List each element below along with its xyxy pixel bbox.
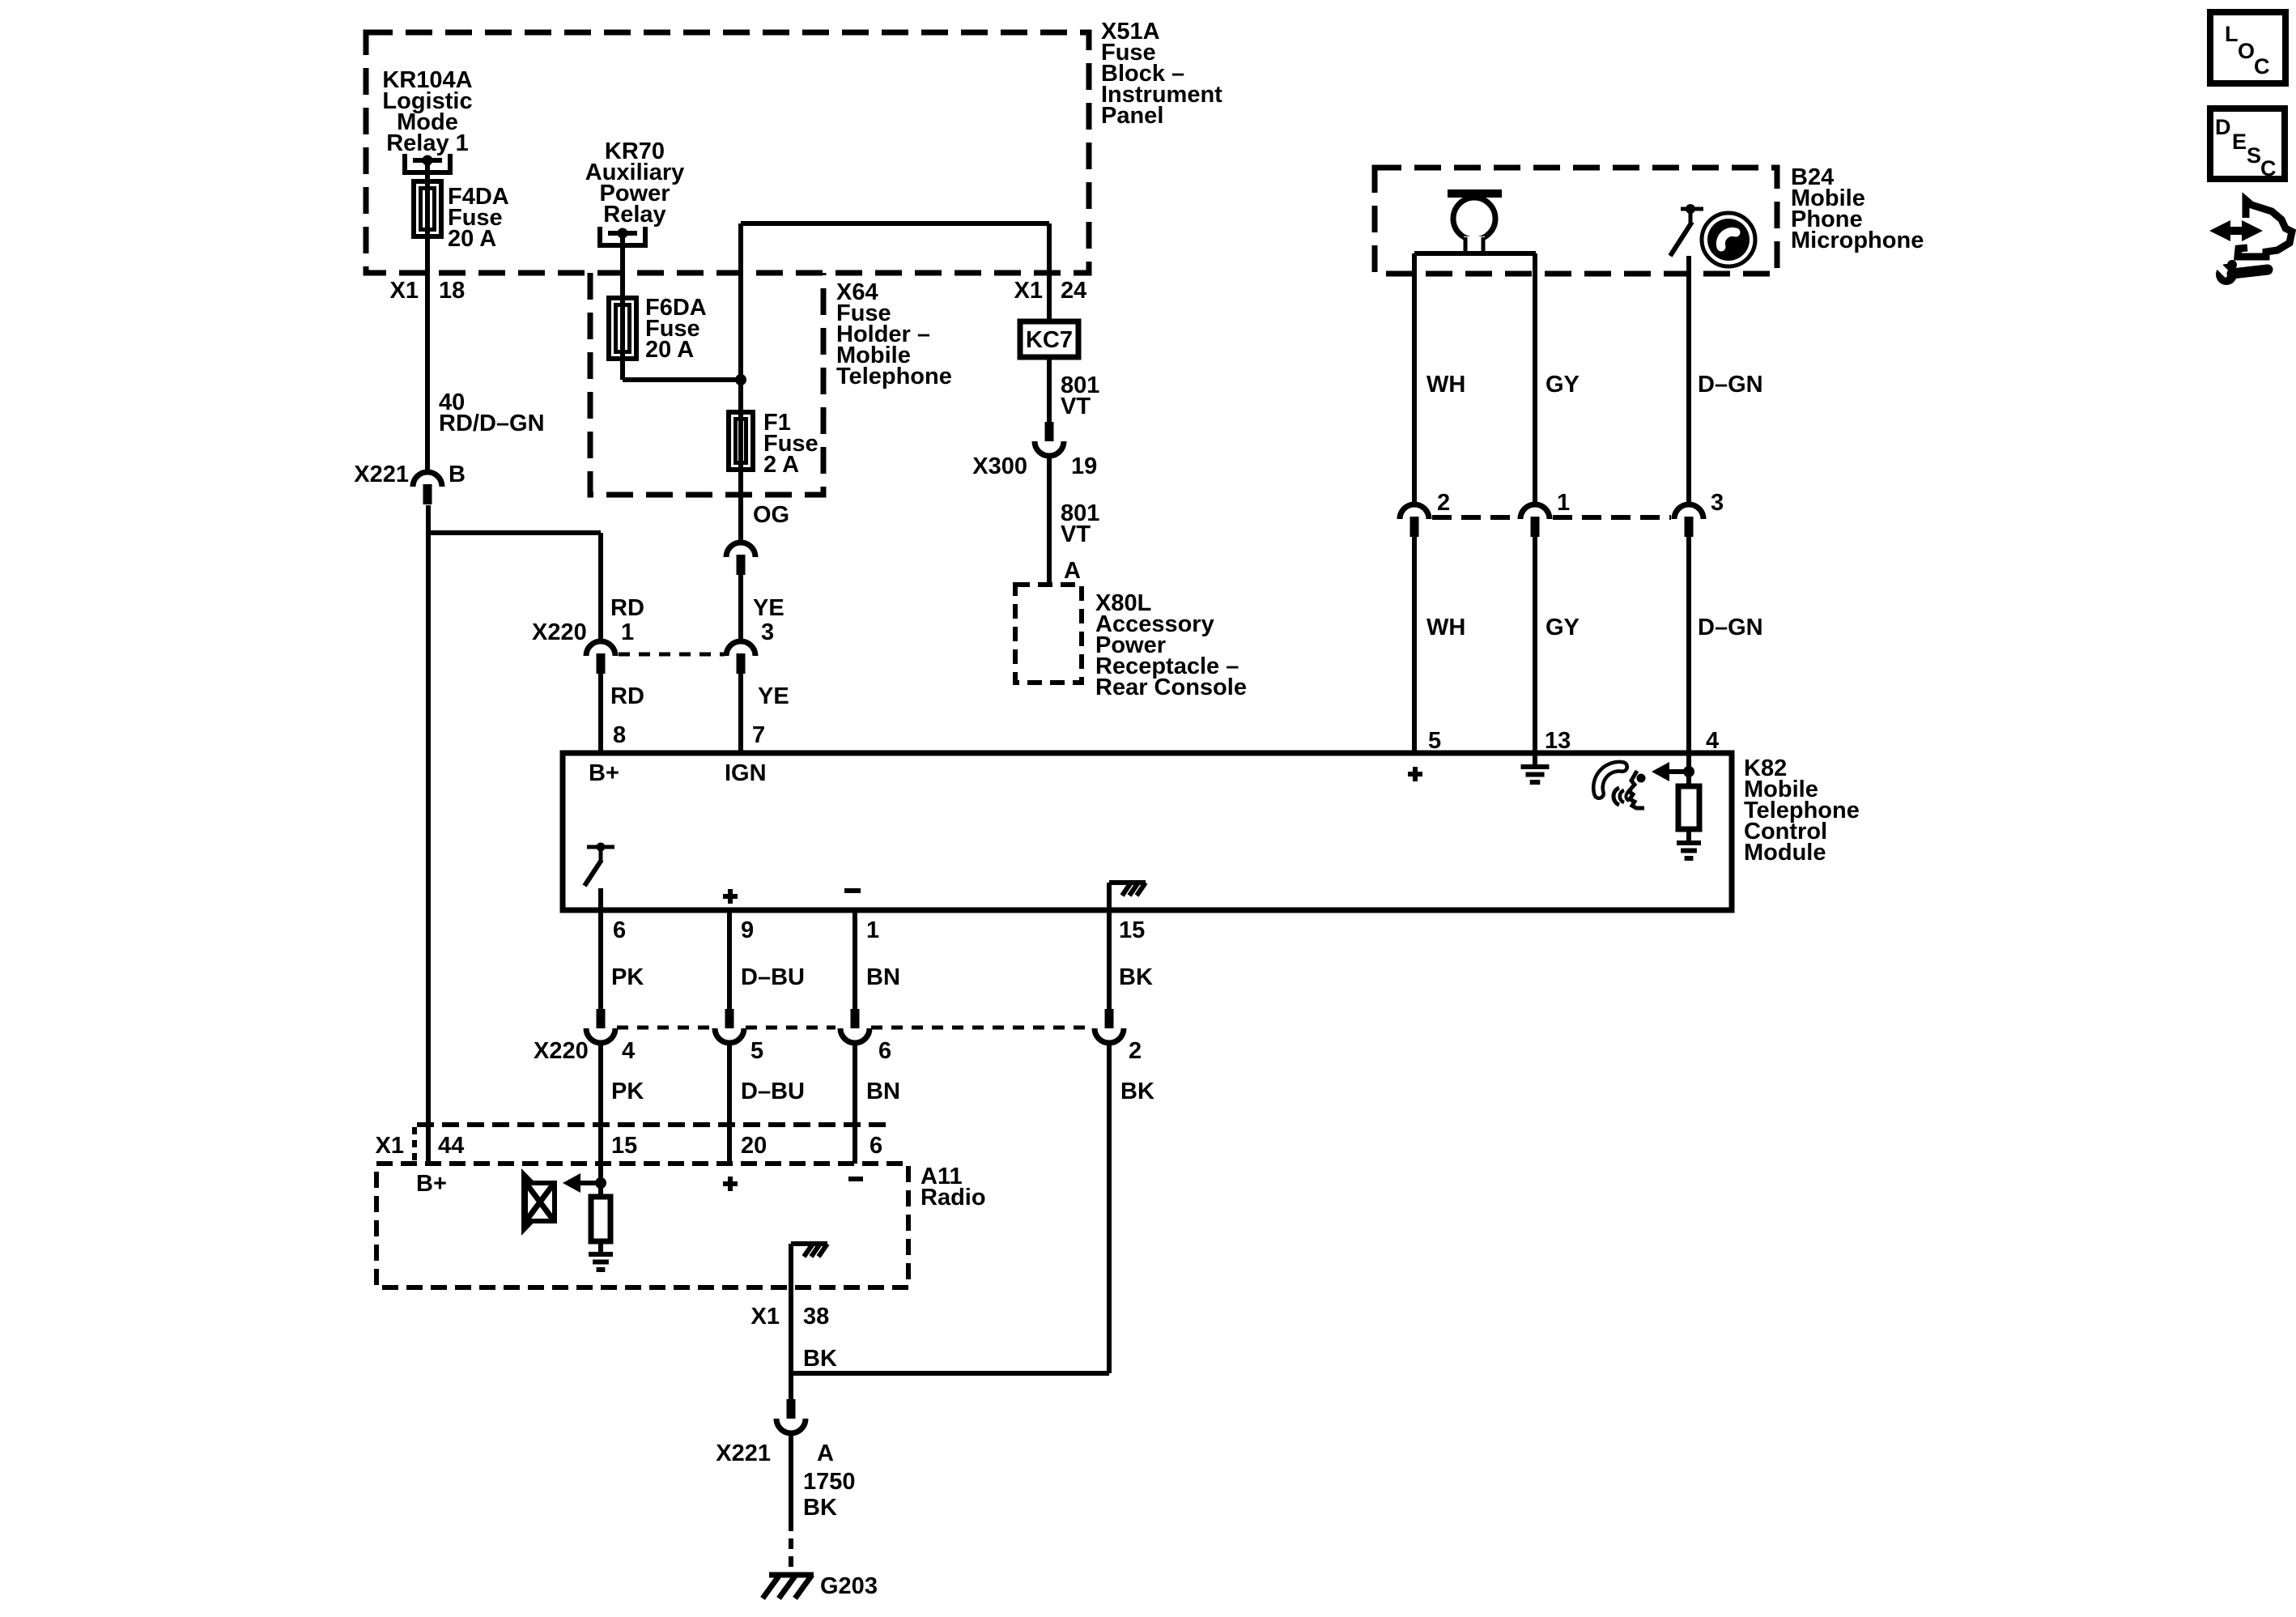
svg-text:WH: WH xyxy=(1426,372,1465,398)
wire PK X220-4 into radio xyxy=(598,1042,603,1183)
wire label 801 VT xyxy=(1061,372,1099,419)
connector X220 pin 1 xyxy=(586,641,615,674)
minus symbol radio pin 6 xyxy=(848,1177,863,1181)
svg-text:BN: BN xyxy=(866,1079,900,1104)
label A11 Radio xyxy=(921,1164,986,1211)
svg-text:24: 24 xyxy=(1061,278,1086,304)
microphone B24 dashed box xyxy=(1375,168,1777,274)
svg-text:BK: BK xyxy=(803,1346,837,1372)
svg-text:4: 4 xyxy=(1706,728,1719,754)
svg-text:2 A: 2 A xyxy=(763,452,799,478)
label X1 44 radio xyxy=(376,1133,465,1159)
label F4DA Fuse 20 A xyxy=(448,184,509,252)
box KC7 xyxy=(1020,321,1078,357)
dashed link B24 row a xyxy=(1432,515,1517,520)
svg-text:15: 15 xyxy=(1119,917,1145,943)
wire WH lower xyxy=(1412,536,1417,753)
label F1 Fuse 2 A xyxy=(763,410,818,478)
wire F6DA to junction xyxy=(623,359,741,380)
wire GY lower xyxy=(1533,536,1537,753)
dashed link X220 row1 xyxy=(619,653,725,657)
svg-text:2: 2 xyxy=(1437,490,1450,516)
svg-text:BK: BK xyxy=(1119,964,1153,990)
svg-text:8: 8 xyxy=(613,722,626,748)
svg-text:O: O xyxy=(2238,39,2255,63)
label X51A Fuse Block - Instrument Panel xyxy=(1101,19,1222,129)
svg-text:19: 19 xyxy=(1071,453,1097,479)
svg-text:1: 1 xyxy=(621,619,634,645)
svg-text:PK: PK xyxy=(611,964,644,990)
svg-text:OG: OG xyxy=(753,502,789,528)
ground symbol pin 13 xyxy=(1521,753,1550,782)
svg-text:D–BU: D–BU xyxy=(741,964,805,990)
receptacle X80L dashed box xyxy=(1015,585,1082,683)
wire F1 to OG connector xyxy=(738,470,743,544)
inline connector OG xyxy=(726,543,755,575)
minus symbol pin 1 xyxy=(844,888,861,893)
wire RD X220-1 to K82 pin 8 xyxy=(598,673,603,753)
wire D-BU X220-5 to radio xyxy=(727,1042,732,1164)
svg-text:S: S xyxy=(2247,143,2261,168)
wire KC7 to X300 xyxy=(1047,357,1052,423)
svg-text:B+: B+ xyxy=(589,760,619,786)
connector X220 pin 3 xyxy=(726,641,755,674)
pin label X1 18 xyxy=(390,278,466,304)
svg-text:1750: 1750 xyxy=(803,1469,856,1495)
fuse F4DA 20A xyxy=(414,181,441,236)
plus symbol radio pin 20 xyxy=(723,1181,738,1186)
svg-text:D: D xyxy=(2215,115,2231,139)
phone icon xyxy=(1702,213,1755,266)
wire YE to X220 pin 3 xyxy=(738,575,743,641)
svg-text:1: 1 xyxy=(1557,490,1570,516)
svg-text:KC7: KC7 xyxy=(1026,327,1073,353)
connector B24 pin 2 xyxy=(1400,504,1429,537)
wire junction to F1 xyxy=(738,380,743,414)
wire label 801 VT lower xyxy=(1061,500,1099,547)
svg-text:Radio: Radio xyxy=(921,1185,986,1211)
connector X221 pin B xyxy=(413,472,442,504)
mute speaker icon xyxy=(521,1168,555,1236)
label KR104A Logistic Mode Relay 1 xyxy=(382,67,472,156)
fuse holder X64 dashed box xyxy=(590,273,823,495)
wire KR104A to F4DA xyxy=(425,160,430,183)
svg-text:Rear Console: Rear Console xyxy=(1095,674,1247,700)
svg-text:BK: BK xyxy=(803,1495,837,1521)
svg-text:D–BU: D–BU xyxy=(741,1079,805,1104)
relay KR70 Auxiliary Power Relay xyxy=(600,227,645,245)
label KR70 Auxiliary Power Relay xyxy=(585,138,685,228)
wire KR70 to F6DA xyxy=(620,233,625,300)
svg-text:1: 1 xyxy=(866,917,879,943)
fuse block X51A dashed box xyxy=(366,32,1089,273)
svg-text:Relay: Relay xyxy=(603,202,665,228)
svg-text:X221: X221 xyxy=(716,1440,771,1466)
wire BK X220-2 down xyxy=(791,1042,1109,1373)
svg-text:D–GN: D–GN xyxy=(1698,372,1763,398)
label X80L Accessory Power Receptacle - Rear Console xyxy=(1095,590,1247,700)
ground G203 xyxy=(763,1575,814,1598)
svg-text:X1: X1 xyxy=(376,1133,404,1159)
svg-text:6: 6 xyxy=(613,917,626,943)
svg-text:C: C xyxy=(2260,156,2277,181)
svg-text:GY: GY xyxy=(1546,615,1580,640)
resistor in radio xyxy=(591,1183,610,1241)
wire junction up to KC7 feed xyxy=(741,223,1049,380)
svg-text:Module: Module xyxy=(1744,840,1826,866)
wire GY mic to K82 pin 13 xyxy=(1533,253,1537,504)
wire D-GN switch to K82 pin 4 xyxy=(1686,256,1691,504)
dashed link X220 row2 b xyxy=(746,1026,835,1030)
label F6DA Fuse 20 A xyxy=(645,295,707,363)
connector B24 pin 1 xyxy=(1520,504,1550,537)
svg-text:X1: X1 xyxy=(751,1304,780,1330)
svg-text:A: A xyxy=(1064,558,1081,584)
label X64 Fuse Holder - Mobile Telephone xyxy=(836,279,952,389)
svg-text:WH: WH xyxy=(1426,615,1465,640)
connector X220 pin 2 xyxy=(1095,1009,1124,1043)
radio A11 dashed box xyxy=(376,1164,908,1287)
wire X300 to X80L xyxy=(1047,455,1052,585)
svg-text:PK: PK xyxy=(611,1079,644,1104)
svg-text:6: 6 xyxy=(870,1133,882,1159)
wire RD down to X220 pin 1 xyxy=(598,533,603,641)
wire BN K82 pin1 to X220 pin 6 xyxy=(852,910,857,1009)
wire D-BU K82 pin9 to X220 pin 5 xyxy=(727,910,732,1009)
phone speech icon in K82 xyxy=(1598,767,1646,808)
wire BK K82 pin15 to X220 pin 2 xyxy=(1107,910,1112,1009)
plus symbol pin 9 xyxy=(723,894,738,899)
label 1750 BK xyxy=(803,1469,856,1521)
dashed link X220 row2 a xyxy=(617,1026,713,1030)
svg-text:6: 6 xyxy=(878,1038,891,1064)
label X1 38 xyxy=(751,1304,830,1330)
wire label 40 RD/D-GN xyxy=(439,389,545,436)
svg-text:5: 5 xyxy=(1428,728,1441,754)
fuse F6DA 20A xyxy=(609,298,636,359)
wire RD X221-B down to radio B+ xyxy=(426,505,431,1164)
label X221 B xyxy=(354,462,466,487)
svg-text:BK: BK xyxy=(1120,1079,1154,1104)
X1 separator dash xyxy=(412,1127,417,1161)
label B24 Mobile Phone Microphone xyxy=(1791,164,1924,253)
wire pin4 internal xyxy=(1686,753,1691,786)
svg-text:X1: X1 xyxy=(390,278,419,304)
label X220 4 xyxy=(534,1038,635,1064)
svg-text:7: 7 xyxy=(752,722,765,748)
label K82 Mobile Telephone Control Module xyxy=(1744,755,1860,866)
svg-text:Telephone: Telephone xyxy=(836,364,952,389)
wire BN X220-6 to radio xyxy=(852,1042,857,1164)
svg-text:2: 2 xyxy=(1129,1038,1142,1064)
module K82 box xyxy=(563,753,1732,910)
svg-text:L: L xyxy=(2225,22,2239,46)
svg-text:9: 9 xyxy=(741,917,754,943)
wire YE X220-3 to K82 pin 7 xyxy=(738,673,743,753)
svg-text:VT: VT xyxy=(1061,521,1091,547)
pin label X1 24 xyxy=(1014,278,1087,304)
icon LOC xyxy=(2210,12,2285,83)
svg-text:IGN: IGN xyxy=(725,760,767,786)
wire resistor to ground xyxy=(1686,829,1691,843)
svg-text:Panel: Panel xyxy=(1101,103,1163,129)
arrow to phone icon xyxy=(1652,762,1694,781)
svg-text:X220: X220 xyxy=(532,619,587,645)
hook switch symbol xyxy=(1670,204,1703,256)
svg-text:VT: VT xyxy=(1061,394,1091,419)
wire BK to X221 A xyxy=(789,1373,793,1399)
connector X221 pin A xyxy=(776,1399,806,1433)
svg-text:15: 15 xyxy=(611,1133,637,1159)
microphone symbol xyxy=(1414,189,1536,253)
svg-text:20 A: 20 A xyxy=(645,337,694,363)
icon wrench xyxy=(2216,260,2268,285)
wire WH mic to K82 pin 5 xyxy=(1412,253,1417,504)
svg-text:D–GN: D–GN xyxy=(1698,615,1763,640)
resistor in K82 xyxy=(1678,786,1699,829)
label X221 A xyxy=(716,1440,834,1466)
connector X220 pin 4 xyxy=(586,1009,615,1043)
svg-text:RD: RD xyxy=(610,683,644,709)
svg-text:G203: G203 xyxy=(820,1573,878,1599)
svg-text:B: B xyxy=(449,462,466,487)
svg-text:13: 13 xyxy=(1545,728,1571,754)
svg-text:BN: BN xyxy=(866,964,900,990)
svg-text:X300: X300 xyxy=(972,453,1027,479)
dashed link B24 row b xyxy=(1553,515,1671,520)
chassis ground pin 15 internal xyxy=(1109,883,1146,910)
svg-text:A: A xyxy=(817,1440,834,1466)
svg-text:3: 3 xyxy=(1711,490,1724,516)
connector X220 pin 5 xyxy=(715,1009,744,1043)
wire branch to X220 pin 1 xyxy=(428,530,601,535)
svg-text:X221: X221 xyxy=(354,462,409,487)
label X300 19 xyxy=(972,453,1097,479)
svg-text:GY: GY xyxy=(1546,372,1580,398)
wire 40 RD/D-GN F4DA to X221 xyxy=(425,236,430,472)
icon connector pointer xyxy=(2209,200,2292,257)
svg-text:20: 20 xyxy=(741,1133,767,1159)
svg-text:Microphone: Microphone xyxy=(1791,228,1924,253)
connector B24 pin 3 xyxy=(1674,504,1703,537)
plus symbol pin 5 xyxy=(1408,772,1422,777)
label X220 1 xyxy=(532,619,634,645)
icon DESC xyxy=(2210,109,2285,181)
svg-text:C: C xyxy=(2254,54,2270,79)
svg-text:Relay 1: Relay 1 xyxy=(386,130,469,156)
svg-text:B+: B+ xyxy=(416,1171,447,1197)
svg-text:X220: X220 xyxy=(534,1038,589,1064)
connector X220 pin 6 xyxy=(840,1009,870,1043)
radio connector X1 dashed row xyxy=(417,1122,893,1127)
dashed link X220 row2 c xyxy=(871,1026,1092,1030)
chassis ground radio X1-38 xyxy=(791,1244,827,1287)
wire PK K82 pin6 to X220 pin 4 xyxy=(598,888,603,1009)
junction dot xyxy=(735,374,746,385)
wire D-GN lower xyxy=(1686,536,1691,753)
svg-text:38: 38 xyxy=(803,1304,829,1330)
fuse F1 2A xyxy=(729,412,753,470)
wire BK radio X1-38 down xyxy=(789,1287,793,1373)
svg-text:3: 3 xyxy=(761,619,774,645)
wire 1750 BK xyxy=(789,1432,793,1521)
svg-text:20 A: 20 A xyxy=(448,226,496,252)
svg-text:YE: YE xyxy=(753,595,784,621)
svg-text:18: 18 xyxy=(439,278,465,304)
arrow to mute icon xyxy=(563,1173,606,1193)
ground symbol radio internal xyxy=(589,1241,613,1270)
relay KR104A Logistic Mode Relay 1 xyxy=(405,154,450,172)
svg-text:4: 4 xyxy=(622,1038,635,1064)
svg-text:X1: X1 xyxy=(1014,278,1043,304)
ground symbol pin 4 internal xyxy=(1677,840,1701,845)
connector X300 pin 19 xyxy=(1035,422,1064,456)
svg-text:44: 44 xyxy=(438,1133,464,1159)
svg-text:RD: RD xyxy=(610,595,644,621)
svg-text:5: 5 xyxy=(750,1038,763,1064)
svg-text:RD/D–GN: RD/D–GN xyxy=(439,411,545,436)
dashed wire to G203 xyxy=(789,1521,793,1572)
svg-text:YE: YE xyxy=(758,683,789,709)
antenna/mute symbol in K82 xyxy=(585,843,614,887)
svg-text:E: E xyxy=(2232,130,2247,154)
